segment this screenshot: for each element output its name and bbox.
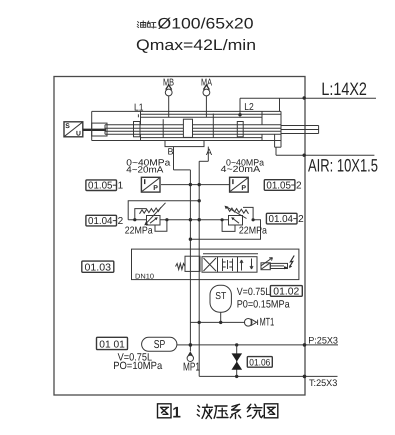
svg-text:L1: L1 (134, 102, 144, 113)
svg-text:Qmax=42L/min: Qmax=42L/min (136, 37, 256, 54)
svg-text:MA: MA (201, 78, 212, 89)
svg-text:PO=10MPa: PO=10MPa (113, 360, 162, 372)
svg-text::: : (152, 20, 155, 30)
svg-text:P0=0.15MPa: P0=0.15MPa (237, 299, 290, 311)
svg-text:P:25X3: P:25X3 (308, 335, 338, 346)
svg-text:B: B (168, 147, 174, 157)
svg-text:2: 2 (296, 180, 302, 191)
svg-text:01.05: 01.05 (88, 181, 113, 192)
svg-text:01.03: 01.03 (85, 262, 112, 273)
svg-text:22MPa: 22MPa (125, 226, 153, 237)
svg-text:L:14X2: L:14X2 (321, 79, 367, 99)
svg-text:ST: ST (215, 291, 226, 302)
svg-text:01.04: 01.04 (269, 214, 294, 225)
svg-text:A: A (206, 147, 212, 157)
svg-text:AIR: 10X1.5: AIR: 10X1.5 (308, 156, 378, 176)
svg-text:P: P (241, 185, 246, 192)
svg-text:22MPa: 22MPa (239, 226, 267, 237)
svg-text:1: 1 (172, 405, 181, 422)
svg-text:MT1: MT1 (260, 317, 275, 329)
svg-text:S: S (65, 123, 70, 130)
svg-text:MP1: MP1 (183, 361, 200, 373)
svg-text:SP: SP (154, 339, 166, 351)
svg-text:4~20mA: 4~20mA (126, 164, 163, 174)
svg-text:MB: MB (163, 78, 174, 89)
svg-text:U: U (76, 131, 81, 138)
svg-text:2: 2 (118, 216, 124, 227)
svg-text:4~20mA: 4~20mA (221, 164, 261, 174)
svg-text:01 01: 01 01 (99, 339, 125, 350)
svg-text:01.06: 01.06 (249, 357, 270, 368)
svg-text:01.02: 01.02 (273, 287, 299, 298)
svg-text:V=0.75L: V=0.75L (237, 286, 271, 298)
svg-text:2: 2 (298, 214, 304, 225)
svg-text:P: P (153, 185, 158, 192)
svg-text:DN10: DN10 (135, 273, 154, 280)
svg-text:Ø100/65x20: Ø100/65x20 (158, 16, 254, 33)
svg-text:1: 1 (118, 181, 124, 192)
svg-text:01.05: 01.05 (266, 180, 291, 191)
svg-text:T:25X3: T:25X3 (309, 378, 337, 389)
svg-text:01.04: 01.04 (88, 216, 113, 227)
svg-text:L2: L2 (244, 102, 254, 113)
